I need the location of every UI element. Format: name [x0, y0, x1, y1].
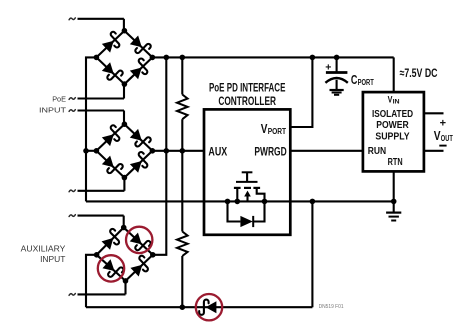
svg-text:INPUT: INPUT [40, 255, 65, 264]
node BR2 AC top [122, 121, 128, 127]
highlight circle on diode (BR3) [126, 227, 152, 253]
wire [181, 151, 183, 232]
wire [123, 216, 125, 228]
junction [235, 199, 241, 205]
schottky diode BR3b (BR3 bridge top-right arm) [124, 228, 153, 255]
schottky diode BR2a (BR2 bridge top-left arm) [96, 124, 124, 151]
svg-text:PoE: PoE [52, 95, 66, 104]
node BR1 AC bottom [122, 81, 128, 87]
node BR3 AC top [121, 225, 127, 231]
PoE PD interface controller block U1 [204, 109, 290, 234]
svg-text:PWRGD: PWRGD [254, 147, 286, 159]
node BR1 positive (right) [150, 55, 156, 61]
junction [334, 55, 340, 61]
wire [123, 178, 125, 191]
node BR1 negative (left) [94, 55, 100, 61]
wire AUX net [152, 150, 204, 152]
ground (system) [393, 201, 395, 212]
node BR3 AC bottom [123, 278, 129, 284]
svg-text:PoE PD INTERFACE: PoE PD INTERFACE [209, 82, 286, 95]
wire return rail (-48V return) [86, 200, 394, 202]
highlight circle on diode (BR3) [98, 255, 124, 281]
mosfet channel segments [234, 187, 241, 189]
junction [164, 55, 170, 61]
svg-text:OUT: OUT [441, 133, 454, 143]
junction [164, 148, 170, 154]
wire vertical down to aux bridge right node [153, 151, 167, 255]
svg-text:RTN: RTN [388, 157, 403, 168]
wire vertical (bridge outputs to AUX node) [165, 57, 167, 150]
svg-text:IN: IN [393, 98, 400, 105]
diode D-aux (circled, on bottom rail) [199, 300, 216, 315]
input terminal ~ (spare top) [69, 190, 75, 192]
wire VOUT- [424, 150, 444, 152]
svg-text:POWER: POWER [376, 120, 409, 131]
wire RTN down [393, 171, 395, 201]
wire [123, 111, 125, 125]
mosfet source lead [236, 188, 238, 202]
svg-text:+: + [325, 61, 331, 73]
wire bottom rail riser [311, 201, 313, 307]
node BR2 positive (right) [150, 148, 156, 154]
svg-text:INPUT: INPUT [39, 106, 66, 115]
svg-text:V: V [434, 128, 441, 143]
ground (under CPORT) [330, 89, 344, 91]
schottky diode BR3c (BR3 bridge bottom-left arm) [97, 255, 126, 281]
junction [310, 55, 316, 61]
wire VOUT+ [424, 112, 444, 114]
svg-text:AUXILIARY: AUXILIARY [21, 245, 66, 254]
node BR2 AC bottom [122, 175, 128, 181]
input terminal ~ (PoE+) [69, 98, 75, 100]
svg-text:C: C [351, 72, 358, 87]
schottky diode BR2c (BR2 bridge bottom-left arm) [96, 151, 124, 178]
svg-text:SUPPLY: SUPPLY [375, 131, 410, 142]
svg-text:≈7.5V DC: ≈7.5V DC [400, 66, 438, 80]
node BR1 AC top [122, 28, 128, 34]
mosfet drain lead [257, 188, 265, 202]
svg-text:DN519 F01: DN519 F01 [319, 304, 344, 310]
schottky diode BR3a (BR3 bridge top-left arm) [97, 228, 124, 255]
junction [180, 55, 186, 61]
input terminal ~ (top) [69, 18, 75, 20]
svg-text:ISOLATED: ISOLATED [372, 109, 413, 120]
wire diode branch left [228, 201, 241, 221]
wire cap stub [336, 57, 338, 72]
junction [180, 148, 186, 154]
node BR2 negative (left) [94, 148, 100, 154]
wire bridge2 left stub [86, 150, 96, 152]
junction [225, 199, 231, 205]
junction [310, 199, 316, 205]
schottky diode BR1c (BR1 bridge bottom-left arm) [96, 57, 124, 84]
aux terminal ~ (top) [69, 215, 75, 217]
wire [123, 84, 125, 98]
junction [391, 199, 397, 205]
schottky diode BR2d (BR2 bridge bottom-right arm) [124, 151, 152, 178]
wire bridge1 left to return rail [86, 57, 96, 201]
label - (VOUT) [439, 145, 446, 147]
node BR3 negative (left) [94, 252, 100, 258]
resistor R2 [177, 232, 188, 257]
capacitor CPORT (polarized) [326, 71, 348, 74]
svg-text:+: + [440, 117, 446, 129]
schottky diode BR2b (BR2 bridge top-right arm) [124, 124, 152, 151]
node BR3 positive (right) [150, 252, 156, 258]
wire diode branch right [253, 201, 264, 221]
input terminal ~ (PoE-) [69, 110, 75, 112]
resistor R1 [177, 95, 188, 120]
wire [123, 19, 125, 31]
aux terminal ~ (bottom) [69, 294, 75, 296]
wire [181, 256, 183, 307]
junction [262, 199, 268, 205]
wire [124, 281, 126, 295]
schottky diode BR1a (BR1 bridge top-left arm) [96, 31, 124, 58]
wire aux-left down to bottom rail [86, 255, 97, 307]
wire VPORT to +rail [290, 57, 312, 127]
svg-text:PORT: PORT [268, 126, 287, 136]
svg-text:PORT: PORT [358, 78, 374, 87]
wire [181, 57, 183, 94]
svg-text:RUN: RUN [368, 146, 386, 157]
isolated power supply block U2 [363, 92, 424, 171]
schottky diode BR1b (BR1 bridge top-right arm) [124, 31, 152, 58]
mosfet gate bar [236, 181, 258, 183]
wire [181, 119, 183, 151]
junction [83, 148, 89, 154]
svg-text:CONTROLLER: CONTROLLER [218, 95, 276, 108]
schottky diode BR3d (BR3 bridge bottom-right arm) [126, 255, 153, 281]
wire PWRGD-RUN net [290, 150, 363, 152]
wire +rail to VIN [393, 57, 395, 92]
schottky diode BR1d (BR1 bridge bottom-right arm) [124, 57, 152, 84]
mosfet Q internal (gate lead) [246, 172, 248, 182]
svg-text:AUX: AUX [208, 147, 227, 159]
wire bottom rail [86, 306, 312, 308]
junction [180, 304, 186, 310]
mosfet body arrow [244, 191, 251, 197]
wire top +rail [152, 56, 393, 58]
diode D internal (body diode) [240, 216, 252, 227]
